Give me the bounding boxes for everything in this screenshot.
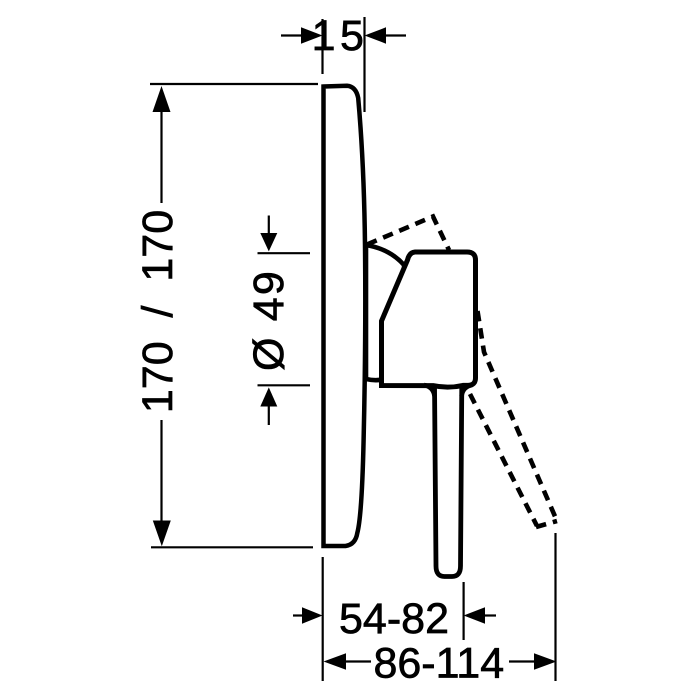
svg-text:86-114: 86-114 <box>373 640 504 688</box>
svg-text:Ø 49: Ø 49 <box>245 269 293 371</box>
svg-text:1: 1 <box>312 12 336 60</box>
svg-text:170 / 170: 170 / 170 <box>134 210 182 413</box>
svg-text:54-82: 54-82 <box>339 595 449 643</box>
svg-text:5: 5 <box>340 12 364 60</box>
